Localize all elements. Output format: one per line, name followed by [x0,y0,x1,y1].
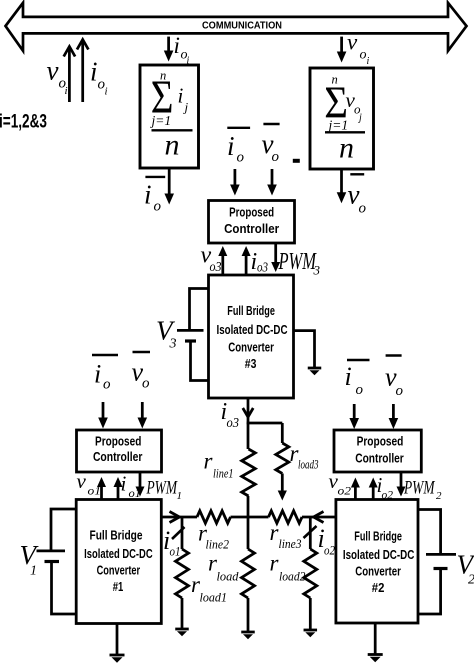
svg-text:o: o [154,199,162,215]
wire v_o average output arrow [340,169,343,194]
svg-text:#2: #2 [372,581,385,595]
svg-text:Controller: Controller [93,450,143,464]
svg-text:1: 1 [177,490,183,502]
svg-text:o: o [396,383,404,399]
svg-text:Full Bridge: Full Bridge [354,530,402,544]
svg-text:COMMUNICATION: COMMUNICATION [202,21,282,32]
svg-text:i=1,2&3: i=1,2&3 [0,111,47,132]
svg-text:i: i [90,57,98,87]
ground (converter 3) [308,367,322,370]
svg-text:o2: o2 [338,484,352,498]
svg-text:o: o [360,48,367,63]
label i_o bar (left output) [145,176,165,178]
svg-text:#3: #3 [245,357,257,371]
ground (converter 1) [110,654,125,657]
svg-text:PWM: PWM [146,477,178,498]
label i_o bar (left reference) [92,354,118,356]
resistor r_load3 [276,443,289,474]
current arrow i_o2 on bus [314,512,324,523]
svg-text:v: v [47,56,59,86]
svg-text:3: 3 [313,263,321,278]
wire r_load3 bottom arrow [281,474,284,493]
wire r_line1 top lead [247,423,250,449]
svg-text:Controller: Controller [355,452,404,466]
svg-text:o: o [272,149,280,165]
wire v_o2 sense arrow [354,486,357,500]
label i_o bar reference (center) [227,127,250,129]
svg-text:Isolated DC-DC: Isolated DC-DC [343,548,415,562]
svg-text:Full Bridge: Full Bridge [227,304,275,318]
wire v_o-bar into controller 2 [392,404,395,420]
svg-text:load1: load1 [200,590,228,605]
svg-text:i: i [178,84,184,108]
label i_o bar (right reference) [347,359,370,361]
label v_o bar (right reference) [386,354,402,356]
wire V2 positive lead [418,510,441,554]
svg-text:Proposed: Proposed [229,205,274,219]
svg-text:i: i [144,180,152,210]
svg-text:load3: load3 [298,457,319,472]
svg-text:o: o [103,377,111,393]
block U3 proposed controller [209,201,295,244]
wire PWM_1 gate signal arrow [139,472,142,489]
svg-text:o: o [237,150,245,166]
svg-text:Controller: Controller [224,222,279,236]
svg-text:Converter: Converter [97,564,141,578]
svg-text:o3: o3 [257,260,268,275]
slash marker i_o2 [304,526,317,538]
resistor r_line2 [197,511,231,523]
wire v_o3 sense arrow [221,254,224,275]
svg-text:line3: line3 [279,536,302,551]
resistor r_load2 [304,549,317,598]
wire bus r_line2 to r_line3 [231,516,269,519]
wire v_o-bar into controller 3 [271,169,274,187]
resistor r_line1 [242,449,256,496]
block U2 proposed controller [334,430,421,472]
wire V3 negative lead [191,343,209,381]
battery V1 plates [37,550,66,553]
node junction to r_load3 branch [247,422,283,425]
wire i_o1 sense arrow [117,485,120,500]
slash marker i_o1 [172,527,185,539]
svg-text:1: 1 [30,564,37,579]
wire v_oi feedback arrow [68,47,71,103]
wire r_load2 to ground [309,598,312,629]
svg-text:Isolated DC-DC: Isolated DC-DC [217,323,288,337]
block converter #1 full bridge isolated DC-DC [76,500,161,624]
wire r_load2 top lead from bus [309,517,312,549]
wire i_o3 sense arrow [245,254,248,275]
svg-text:v: v [347,30,358,55]
svg-text:i: i [65,85,68,97]
svg-text:o: o [142,376,150,392]
svg-text:i: i [227,131,235,161]
wire r_load3 top lead [281,423,284,443]
ground (r_load) [241,631,255,634]
wire V1 negative lead [52,563,77,614]
svg-text:Converter: Converter [228,341,274,355]
svg-text:load2: load2 [279,569,306,584]
svg-text:o2: o2 [324,543,335,558]
block U1 proposed controller [77,430,162,472]
svg-text:Proposed: Proposed [95,434,141,448]
wire r_load top lead from bus node [247,517,250,549]
svg-text:line2: line2 [206,537,230,552]
resistor r_load1 [176,549,189,598]
svg-text:o: o [359,201,367,217]
svg-text:r: r [204,449,214,474]
resistor r_load [242,549,255,598]
svg-text:2: 2 [468,573,474,588]
svg-text:#1: #1 [113,580,124,594]
ground (r_load1) [175,628,189,631]
wire r_load to ground [247,598,250,631]
block converter #3 full bridge isolated DC-DC [209,275,294,398]
summation symbol [324,78,348,129]
svg-text:j=1: j=1 [150,113,172,128]
minus sign before voltage-average block [293,159,300,163]
svg-text:load: load [217,569,239,584]
block U_avg_i current averaging [140,65,199,168]
label v_o bar (right output) [350,173,364,175]
battery V3 plates [177,329,204,332]
wire i_o-bar into controller 3 [234,169,237,187]
svg-text:o1: o1 [170,543,181,558]
svg-text:o1: o1 [88,484,102,498]
wire converter 1 to ground [116,624,119,655]
wire i_oi into current-average block [167,37,170,53]
label v_o bar reference (center) [263,123,279,125]
wire V3 positive lead [190,289,209,330]
fraction bar [325,131,365,133]
wire i_o3 output of converter 3 [247,398,250,424]
ground (r_load2) [304,629,318,632]
ground (converter 2) [368,653,383,656]
wire v_oi into voltage-average block [340,37,343,54]
wire r_load1 to ground [181,598,184,628]
svg-text:2: 2 [436,490,442,502]
svg-text:i: i [174,33,180,58]
wire v_o-bar into controller 1 [141,402,144,420]
svg-text:v: v [77,469,87,493]
svg-text:3: 3 [169,337,177,352]
label v_o bar (left reference) [133,351,151,353]
battery V2 plates [426,553,456,556]
fraction bar [152,129,193,131]
svg-text:i: i [105,86,108,98]
wire i_oi feedback arrow [81,40,84,103]
wire i_o average output arrow [168,168,171,196]
svg-text:PWM: PWM [278,249,318,275]
wire v_o1 sense arrow [100,485,103,500]
communication bus double-arrow [6,3,467,51]
resistor r_line3 [269,511,303,523]
svg-text:o3: o3 [210,259,222,274]
svg-text:i: i [345,362,352,391]
wire converter 2 to ground [374,623,377,654]
svg-text:j=1: j=1 [327,118,349,133]
wire PWM_3 gate signal arrow [274,243,277,264]
wire V2 negative lead [418,570,441,614]
wire i_o-bar into controller 1 [102,402,105,420]
wire i_o2 sense arrow [372,486,375,500]
wire PWM_2 gate signal arrow [400,472,403,489]
summation symbol [151,71,174,124]
svg-text:Converter: Converter [355,565,401,579]
wire bus r_line3 to conv2 [302,516,336,519]
svg-text:Full Bridge: Full Bridge [90,528,143,542]
svg-text:n: n [165,129,180,162]
wire i_o-bar into controller 2 [353,404,356,420]
svg-text:o: o [356,382,364,398]
svg-text:Proposed: Proposed [357,435,404,449]
svg-text:i: i [367,56,370,67]
svg-text:Isolated DC-DC: Isolated DC-DC [84,547,153,561]
svg-text:line1: line1 [213,466,234,481]
block U_avg_v voltage averaging [310,68,374,169]
wire bus conv1 to r_line2 [161,516,197,519]
wire r_load1 top lead from bus [181,517,184,549]
wire converter 3 to ground [294,331,315,367]
wire V1 positive lead [51,509,76,550]
svg-text:i: i [94,360,101,389]
current arrow i_o1 on bus [170,512,180,523]
block converter #2 full bridge isolated DC-DC [336,500,418,624]
svg-text:PWM: PWM [403,478,435,499]
svg-text:r: r [270,551,280,576]
svg-text:o3: o3 [227,415,240,430]
wire r_line1 bottom lead [247,496,250,518]
svg-text:n: n [339,132,354,165]
svg-text:i: i [121,472,127,496]
